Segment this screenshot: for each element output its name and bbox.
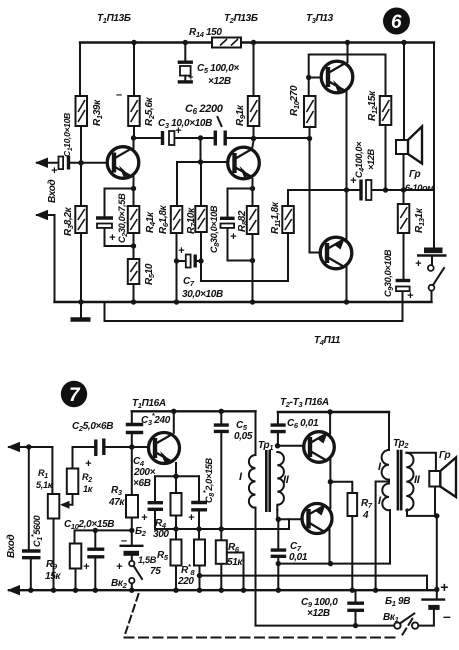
wire R6 tap to rail xyxy=(227,553,244,591)
wire T2 collector to rail2 xyxy=(329,412,331,434)
wire R5 bottom to rail xyxy=(175,566,177,591)
wire C4 right to right rail xyxy=(372,189,433,191)
transformer Tr2 core xyxy=(398,450,401,511)
node rail R1 7 xyxy=(51,588,56,593)
wire R13 bottom to C9 xyxy=(403,233,405,278)
node rail C7 xyxy=(276,588,281,593)
wire link line C7 to Tr2 primary bottom xyxy=(278,510,390,564)
wire C1 to T1 base xyxy=(71,162,108,164)
svg-text:Т3П13: Т3П13 xyxy=(306,13,334,25)
wire C5 bottom to R6 xyxy=(220,433,222,540)
wire bias node left to R9 xyxy=(75,530,132,543)
svg-text:R882: R882 xyxy=(237,210,249,232)
svg-text:200×: 200× xyxy=(133,467,156,478)
input terminal arrow lower xyxy=(35,210,48,221)
svg-text:+: + xyxy=(188,512,195,524)
wire C8 bottom to R8 column xyxy=(228,228,253,261)
node switch line C9 xyxy=(353,623,358,628)
svg-text:+: + xyxy=(83,561,90,573)
capacitor C9 100,0x12V 7 xyxy=(347,603,364,610)
capacitor C6 2200 xyxy=(215,131,225,146)
wire R9 bottom to collector node xyxy=(253,126,255,139)
wire C9 bottom to switch line 7 xyxy=(355,612,357,626)
wire emitter T2 to C8 top xyxy=(228,189,253,217)
svg-text:R710к: R710к xyxy=(186,207,198,234)
dashed link Vk2 xyxy=(126,594,139,633)
node rail2 T2 xyxy=(327,409,332,414)
node input split xyxy=(26,444,31,449)
wire base node left to R6 xyxy=(177,162,201,206)
capacitor C9 30,0x10V xyxy=(396,281,411,292)
svg-text:–: – xyxy=(443,608,451,624)
svg-text:0,05: 0,05 xyxy=(234,431,253,442)
wire emitter row xyxy=(155,475,199,477)
speaker Gr 7 xyxy=(429,458,456,498)
wire R13 top lead xyxy=(403,190,405,204)
resistor R9 15k 7 xyxy=(70,544,82,569)
node bus R6 xyxy=(219,526,224,531)
svg-text:75: 75 xyxy=(150,566,161,577)
node T3 collector link xyxy=(328,561,333,566)
svg-text:+: + xyxy=(178,245,185,257)
wire between C3 and C6 xyxy=(176,137,214,139)
wire R1 pot top xyxy=(51,447,53,494)
capacitor C6 0,01 7 xyxy=(271,425,286,432)
svg-text:R1215к: R1215к xyxy=(367,90,379,121)
wire C10 top lead xyxy=(94,530,96,547)
node rail R9 xyxy=(251,40,256,45)
wire R2 bottom wiper xyxy=(63,494,73,505)
potentiometer R1 5,1k xyxy=(48,494,60,519)
node C10 tap xyxy=(93,528,98,533)
wire C1 bottom to rail xyxy=(30,560,32,591)
wire C4 bottom to bus xyxy=(155,511,289,529)
resistor R3 47k 7 xyxy=(126,495,138,518)
svg-text:–: – xyxy=(116,89,122,101)
wire T3 collector from rail xyxy=(347,43,349,63)
wire battery to switch xyxy=(431,257,433,266)
capacitor C2 30,0x7,5V xyxy=(96,218,113,228)
wire Tr2 secondary top to speaker xyxy=(407,453,436,471)
resistor R3 8,2k xyxy=(75,206,87,233)
wire speaker bottom 7 xyxy=(434,487,436,516)
wire T4 emitter up xyxy=(346,190,348,240)
capacitor C7 30,0x10V xyxy=(186,255,195,268)
svg-text:R111,8к: R111,8к xyxy=(270,201,282,234)
svg-text:–: – xyxy=(121,535,127,547)
capacitor C1 5600 7 xyxy=(22,551,41,558)
transistor T1 7 xyxy=(149,433,180,464)
resistor R8 82 xyxy=(247,206,258,234)
wire C7 bottom to rail xyxy=(277,558,279,590)
node R10 bottom xyxy=(307,136,312,141)
wire battery B1 to switch xyxy=(418,610,434,626)
svg-text:220: 220 xyxy=(177,576,194,587)
wire rail left drop to R1 xyxy=(79,43,81,97)
resistor R2 1k 7 xyxy=(67,469,79,495)
wire right rail 7 xyxy=(436,516,438,598)
capacitor C4 100,0x12V xyxy=(361,180,371,201)
svg-text:Т2П13Б: Т2П13Б xyxy=(224,13,258,25)
wire input upper lead 7 xyxy=(9,446,52,448)
resistor R5 10 xyxy=(128,259,140,284)
node rail R6 7 xyxy=(219,588,224,593)
svg-text:R91к: R91к xyxy=(235,104,247,126)
wire T1 emitter down xyxy=(175,463,177,476)
svg-text:Т1П13Б: Т1П13Б xyxy=(97,13,131,25)
ground bar xyxy=(71,317,91,322)
svg-text:×12В: ×12В xyxy=(307,608,330,619)
svg-text:×12В: ×12В xyxy=(366,148,376,170)
node bias junction xyxy=(129,528,134,533)
transistor T4 xyxy=(320,237,352,269)
wire Tr1 secondary bottom to T3 base xyxy=(277,510,302,519)
wire R8 bottom to rail xyxy=(252,234,254,302)
transistor T3 xyxy=(321,61,353,93)
battery B1 9V xyxy=(421,600,445,608)
wire T2 emitter xyxy=(252,179,254,206)
capacitor C3 240 7 xyxy=(126,425,143,433)
node R8-C8 bottom junction xyxy=(250,258,255,263)
switch Vk 6 xyxy=(428,265,444,291)
svg-text:Вход: Вход xyxy=(47,180,58,203)
resistor R6 1,8k xyxy=(171,206,183,233)
wire right rail to battery xyxy=(433,43,435,248)
wire rail into C3 xyxy=(131,411,133,422)
node plus line R8 xyxy=(197,573,202,578)
wire bottom rail 7 xyxy=(9,589,437,591)
svg-text:+: + xyxy=(51,165,58,177)
wire Tr2 secondary bottom xyxy=(407,510,437,516)
node bus R5 xyxy=(173,526,178,531)
resistor R5 75 7 xyxy=(171,540,182,566)
svg-text:R10270: R10270 xyxy=(289,85,301,116)
wire T2 emitter down to T3 xyxy=(329,460,331,509)
wire C1 column xyxy=(28,447,30,549)
wire R7 bottom to rail xyxy=(351,516,353,590)
node rail Tr2 tap xyxy=(373,588,378,593)
node emitter R7 tap xyxy=(328,479,333,484)
transistor T2 7 xyxy=(304,432,335,463)
wire C7 top lead xyxy=(277,519,279,548)
svg-text:6-10ом: 6-10ом xyxy=(405,183,434,193)
resistor R6 51k 7 xyxy=(216,540,227,564)
wire R6 bottom through C7 node to rail xyxy=(176,233,178,302)
wire R2 bottom to collector wire xyxy=(133,126,135,138)
svg-text:7: 7 xyxy=(69,385,81,406)
wire switch to rail end xyxy=(431,291,433,302)
battery B 6 xyxy=(417,250,447,255)
svg-text:+: + xyxy=(141,512,148,524)
node rail C10 7 xyxy=(93,588,98,593)
wire R11 top to feedback node xyxy=(288,190,347,206)
node T3 base xyxy=(306,75,311,80)
node rail R6 tap xyxy=(241,588,246,593)
wire R3 column xyxy=(80,163,82,206)
svg-text:Вход: Вход xyxy=(6,535,17,558)
input terminal arrow lower 7 xyxy=(7,585,20,596)
wire R8 bottom to rail xyxy=(199,566,201,591)
svg-text:5,1к: 5,1к xyxy=(36,480,54,490)
wire B2 to switch Vk2 xyxy=(131,556,133,561)
resistor R7 4 7 xyxy=(348,493,358,516)
svg-text:300: 300 xyxy=(153,529,169,540)
svg-text:R38,2к: R38,2к xyxy=(63,206,75,236)
wire speaker bottom lead xyxy=(403,154,405,190)
wire T1 emitter xyxy=(133,177,135,206)
resistor R7 10k xyxy=(195,206,207,232)
capacitor C5 100,0x12V xyxy=(178,62,193,82)
node speaker bottom xyxy=(401,187,406,192)
svg-text:R510: R510 xyxy=(144,263,156,285)
resistor R10 270 xyxy=(304,96,316,127)
wire C2 bottom to R4-R5 node xyxy=(105,228,134,246)
svg-text:6: 6 xyxy=(391,12,402,33)
svg-text:Б1 9В: Б1 9В xyxy=(385,596,410,608)
transistor T3 7 xyxy=(302,504,332,534)
wiper arrow R1 xyxy=(60,501,70,509)
wire base node to T2 xyxy=(201,161,229,163)
tick C6 pointer xyxy=(218,117,222,126)
wire speaker column from rail xyxy=(403,43,405,141)
wire R12 bottom to feedback node xyxy=(385,125,387,190)
wire C10 bottom to rail xyxy=(94,559,96,591)
capacitor C8 2,0x15V 7 xyxy=(191,503,207,510)
wire R3 bottom to rail xyxy=(80,233,82,302)
node emitter R4 xyxy=(173,474,178,479)
wire C3 bottom to base node xyxy=(131,435,133,448)
resistor R2 5,6k xyxy=(128,96,140,126)
node T2 base junction 7 xyxy=(275,443,280,448)
capacitor C3 10,0x10V xyxy=(163,131,175,145)
wire C5 column from rail xyxy=(220,411,222,423)
svg-text:+: + xyxy=(116,561,123,573)
node rail R5 xyxy=(131,299,136,304)
transformer Tr2 secondary winding xyxy=(406,453,413,511)
svg-text:+: + xyxy=(109,232,116,244)
svg-text:×6В: ×6В xyxy=(133,478,151,489)
node rail R3 xyxy=(78,299,83,304)
wire R4-R5 link xyxy=(175,516,177,540)
wire T1 collector xyxy=(173,411,175,433)
battery B2 1,5V xyxy=(120,546,144,554)
svg-text:+: + xyxy=(175,125,182,137)
svg-text:1,5В: 1,5В xyxy=(138,555,157,565)
node rail Vk2 xyxy=(129,588,134,593)
dashed link Vk1 xyxy=(403,619,413,635)
svg-text:+: + xyxy=(350,175,357,187)
svg-text:С6 0,01: С6 0,01 xyxy=(287,418,319,430)
switch Vk1 xyxy=(394,614,418,629)
svg-text:15к: 15к xyxy=(45,571,61,582)
node rail R5 7 xyxy=(173,588,178,593)
ground lead xyxy=(80,302,82,318)
node emitter T1 xyxy=(131,186,136,191)
svg-text:+: + xyxy=(415,258,422,270)
resistor R13 1k xyxy=(398,204,410,233)
wire C7 left lead xyxy=(177,260,186,262)
wire Vk2 bottom to rail xyxy=(131,583,133,590)
node rail T4 xyxy=(344,299,349,304)
resistor R11 1,8k xyxy=(282,206,294,233)
svg-text:+: + xyxy=(440,579,448,595)
input terminal arrow upper 7 xyxy=(7,442,20,453)
node base T1 junction xyxy=(78,160,83,165)
wire supply rail segment 1 xyxy=(132,410,256,412)
node rail C1 7 xyxy=(28,588,33,593)
capacitor C2 5,0x6V 7 xyxy=(96,439,104,457)
wire coupling row C3 C6 xyxy=(134,137,162,139)
node rail C5 7 xyxy=(219,409,224,414)
node C7 left xyxy=(174,258,179,263)
transformer Tr1 primary winding xyxy=(249,455,256,508)
wire R4 to R5 xyxy=(133,233,135,259)
transformer Tr1 core xyxy=(266,450,269,512)
wire plus line xyxy=(200,576,428,590)
wire T2 base 7 xyxy=(278,445,305,447)
wire T3 emitter down xyxy=(346,92,348,190)
node speaker return xyxy=(434,513,439,518)
node rail R6 xyxy=(174,299,179,304)
wire R3 bottom to bias node xyxy=(131,518,133,546)
wire T4 collector down xyxy=(346,267,348,302)
resistor R12 15k xyxy=(380,96,392,125)
wire supply rail segment 2 xyxy=(278,411,389,413)
wire T2 base drop xyxy=(200,138,202,162)
svg-text:+: + xyxy=(230,231,237,243)
svg-text:+: + xyxy=(85,458,92,470)
wire T2 collector lead xyxy=(252,141,254,149)
wire C9 bottom to return line xyxy=(105,292,403,322)
switch Vk2 xyxy=(129,561,142,583)
svg-text:×12В: ×12В xyxy=(208,76,231,87)
capacitor C5 0,05 7 xyxy=(214,425,229,431)
node feedback left xyxy=(344,187,349,192)
badge 7 xyxy=(61,381,87,407)
svg-text:4: 4 xyxy=(362,510,369,521)
svg-text:30,0×10В: 30,0×10В xyxy=(182,289,223,300)
node rail end 7 xyxy=(434,587,439,592)
wire R4 top lead xyxy=(175,476,177,493)
wire top supply rail xyxy=(80,41,434,43)
wire T3 base node xyxy=(309,77,321,79)
node rail R9 7 xyxy=(73,588,78,593)
transistor T1 xyxy=(107,147,139,179)
node collector T1 xyxy=(131,135,136,140)
wire C4 top lead xyxy=(154,476,156,500)
wire T3 collector down xyxy=(329,530,331,564)
resistor R9 1k xyxy=(248,96,259,126)
svg-text:+: + xyxy=(407,290,414,302)
svg-text:Т1П16А: Т1П16А xyxy=(132,398,166,410)
wire R7 node to R11 bottom xyxy=(201,233,288,281)
speaker Gr xyxy=(396,127,422,164)
wire Tr1 primary feed down to switch line xyxy=(256,411,395,625)
badge 6 xyxy=(383,8,410,35)
resistor R4 300 7 xyxy=(171,493,182,516)
wire R3 column xyxy=(131,447,133,495)
node rail R2 xyxy=(131,40,136,45)
wire C7 right lead xyxy=(197,260,202,262)
wire bottom rail xyxy=(55,301,432,303)
wire C6 to T2 collector node xyxy=(227,137,310,139)
capacitor C10 2,0x15V xyxy=(87,549,104,557)
wire Tr2 center tap xyxy=(376,482,389,591)
wire R1 bottom to base node xyxy=(80,126,82,163)
wire R1 pot bottom to rail xyxy=(53,519,55,591)
node C7 right xyxy=(198,258,203,263)
node T3 base junction 7 xyxy=(276,517,281,522)
svg-text:С5 100,0×: С5 100,0× xyxy=(197,63,239,75)
wire input upper lead to C1 xyxy=(37,162,58,164)
svg-text:Гр: Гр xyxy=(439,450,451,461)
wire feedback row C4 xyxy=(347,189,360,191)
node R4-R5 junction xyxy=(131,243,136,248)
wire C2 right to T1 base xyxy=(106,446,149,448)
transformer Tr2 primary winding lower xyxy=(382,484,389,511)
capacitor C4 200x6V 7 xyxy=(148,503,163,510)
wire R2 column from rail xyxy=(133,43,135,97)
wire C8 top lead xyxy=(198,476,200,500)
transformer Tr1 secondary winding xyxy=(277,452,284,510)
wire base node down to R7 xyxy=(200,162,202,206)
resistor R14 150 horizontal xyxy=(212,38,241,48)
wire base node up over to R12 xyxy=(309,55,386,97)
node R12 bottom xyxy=(383,187,388,192)
svg-text:0,01: 0,01 xyxy=(289,552,308,563)
wire R7 top lead xyxy=(330,482,352,493)
node rail T3 collector xyxy=(345,40,350,45)
transformer Tr2 primary winding upper xyxy=(382,450,389,480)
svg-text:R14 150: R14 150 xyxy=(189,27,222,39)
svg-text:Т4П11: Т4П11 xyxy=(314,335,341,347)
svg-text:Гр: Гр xyxy=(409,169,421,180)
resistor R4 1k xyxy=(128,206,140,233)
dashed link rail xyxy=(125,637,401,639)
capacitor C8 30,0x10V xyxy=(220,218,235,228)
wire R10 bottom to row node xyxy=(309,127,311,139)
resistor R1 39k xyxy=(76,96,88,126)
wire R6 bottom to rail xyxy=(220,564,222,590)
node C3-C6 junction xyxy=(198,135,203,140)
wire rail2 into C6 xyxy=(277,412,279,423)
node C7 link xyxy=(276,561,281,566)
wire emitter to C2 top xyxy=(105,189,134,217)
svg-text:R41к: R41к xyxy=(145,211,157,233)
wire C6 bottom to T2 base node xyxy=(277,434,279,446)
node bus R8 xyxy=(196,526,201,531)
node T2 collector junction xyxy=(251,136,256,141)
wire T1 collector xyxy=(133,138,135,148)
wire R7 bottom to C7 node xyxy=(200,232,202,281)
svg-text:R25,6к: R25,6к xyxy=(144,96,156,126)
node rail R8 7 xyxy=(197,588,202,593)
wire T4 base column xyxy=(310,139,322,253)
wire C8 bottom to bus xyxy=(198,512,200,540)
svg-text:51к: 51к xyxy=(227,557,243,568)
wire R5 bottom to rail xyxy=(133,284,135,302)
wire input lower lead xyxy=(37,215,55,302)
node T2 base junction xyxy=(198,159,203,164)
node T1 base junction xyxy=(129,444,134,449)
node rail speaker xyxy=(401,40,406,45)
resistor R8 220 7 xyxy=(194,540,205,566)
wire R9 column from rail xyxy=(253,43,255,97)
svg-text:С25,0×6В: С25,0×6В xyxy=(72,421,113,433)
wire C9 top lead 7 xyxy=(355,590,357,601)
wire R2 top from C2 lead xyxy=(73,447,95,469)
wire C5 column from rail xyxy=(184,43,186,61)
